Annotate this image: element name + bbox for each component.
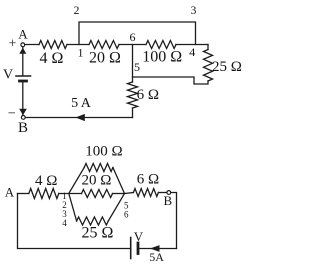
svg-text:6: 6 [130, 30, 136, 44]
svg-text:A: A [5, 184, 15, 199]
svg-text:4: 4 [62, 218, 67, 228]
svg-text:B: B [163, 193, 172, 208]
svg-text:5 A: 5 A [71, 96, 92, 111]
svg-text:2: 2 [74, 5, 80, 17]
svg-text:+: + [9, 37, 17, 52]
svg-text:6 Ω: 6 Ω [137, 87, 159, 103]
svg-text:−: − [8, 106, 16, 121]
svg-text:4: 4 [189, 45, 195, 59]
svg-text:100 Ω: 100 Ω [85, 143, 122, 159]
svg-text:1: 1 [78, 46, 84, 60]
svg-text:V: V [3, 68, 13, 83]
svg-text:3: 3 [191, 5, 197, 17]
svg-text:5: 5 [134, 60, 140, 74]
svg-text:100 Ω: 100 Ω [142, 48, 182, 65]
svg-text:25 Ω: 25 Ω [82, 225, 114, 242]
svg-text:A: A [18, 27, 28, 42]
svg-text:20 Ω: 20 Ω [82, 172, 112, 188]
svg-text:4 Ω: 4 Ω [35, 173, 57, 189]
svg-text:20 Ω: 20 Ω [89, 50, 121, 67]
svg-text:B: B [18, 120, 28, 136]
svg-text:5A: 5A [149, 250, 164, 264]
svg-text:V: V [134, 229, 144, 244]
svg-text:6: 6 [124, 210, 129, 220]
svg-text:6 Ω: 6 Ω [137, 172, 159, 188]
svg-text:25 Ω: 25 Ω [212, 59, 242, 75]
svg-text:4 Ω: 4 Ω [40, 50, 64, 67]
